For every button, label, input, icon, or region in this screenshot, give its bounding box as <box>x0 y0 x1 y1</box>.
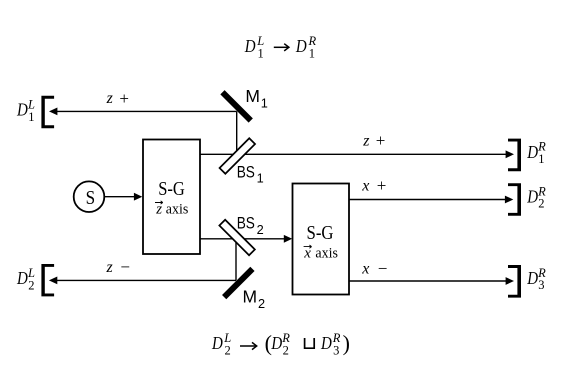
svg-text:D: D <box>526 268 538 288</box>
svg-text:2: 2 <box>225 344 231 358</box>
svg-text:axis: axis <box>315 245 338 261</box>
svg-text:BS: BS <box>237 214 255 233</box>
svg-text:1: 1 <box>28 110 34 124</box>
svg-text:z: z <box>362 133 370 150</box>
svg-text:3: 3 <box>538 278 544 292</box>
svg-text:2: 2 <box>258 296 265 311</box>
svg-text:x: x <box>361 261 369 278</box>
svg-text:D: D <box>526 142 538 162</box>
svg-text:2: 2 <box>283 344 289 358</box>
svg-text:S: S <box>86 187 96 209</box>
svg-text:D: D <box>526 187 538 207</box>
svg-text:x: x <box>361 178 369 195</box>
svg-text:2: 2 <box>538 197 544 211</box>
svg-text:+: + <box>377 176 387 195</box>
svg-text:D: D <box>295 36 307 56</box>
svg-text:1: 1 <box>258 46 264 60</box>
svg-text:M: M <box>245 86 260 106</box>
svg-text:D: D <box>16 100 28 120</box>
svg-text:): ) <box>343 331 350 356</box>
svg-text:2: 2 <box>257 222 264 237</box>
svg-text:D: D <box>16 268 28 288</box>
svg-text:1: 1 <box>257 171 264 186</box>
svg-text:z: z <box>106 90 114 107</box>
svg-text:3: 3 <box>333 344 339 358</box>
svg-text:axis: axis <box>166 201 189 217</box>
svg-text:+: + <box>376 131 386 150</box>
svg-text:+: + <box>119 89 129 108</box>
svg-text:z: z <box>106 259 114 276</box>
svg-text:D: D <box>271 333 283 353</box>
svg-text:−: − <box>120 258 130 277</box>
svg-text:2: 2 <box>28 278 34 292</box>
svg-text:M: M <box>243 286 258 306</box>
svg-text:D: D <box>320 333 332 353</box>
svg-text:1: 1 <box>261 96 268 111</box>
svg-text:D: D <box>244 36 256 56</box>
svg-text:D: D <box>211 333 223 353</box>
svg-text:S-G: S-G <box>307 222 334 244</box>
svg-text:1: 1 <box>309 46 315 60</box>
svg-text:−: − <box>378 259 388 278</box>
svg-text:BS: BS <box>237 162 255 181</box>
svg-text:S-G: S-G <box>158 178 185 200</box>
svg-text:1: 1 <box>538 152 544 166</box>
